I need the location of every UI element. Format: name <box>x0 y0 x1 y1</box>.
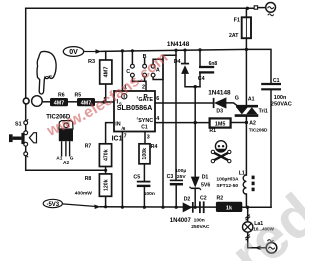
svg-text:S1: S1 <box>15 122 22 128</box>
svg-text:/6: /6 <box>122 126 126 131</box>
wire break marks below lamp <box>245 235 250 241</box>
svg-text:C: C <box>126 69 130 75</box>
svg-text:SYNC: SYNC <box>138 118 153 124</box>
wire IC pin1 from 0V rail <box>121 51 123 91</box>
wire touch plate to R6 <box>42 101 50 103</box>
AC source bottom <box>266 240 277 254</box>
svg-text:5V6: 5V6 <box>201 183 210 189</box>
resistor R4 100k <box>139 144 158 164</box>
wire L1 to lamp junction <box>245 194 247 207</box>
wire C4 top lead <box>199 50 201 66</box>
label 0V net oval <box>63 47 101 57</box>
wire fuse bottom to A1 node <box>245 38 247 49</box>
node dot 0V rail / D4 <box>183 49 186 52</box>
wire C4 bottom lead <box>199 73 201 87</box>
svg-text:D2: D2 <box>184 197 191 203</box>
node dot fuse top rail <box>246 7 249 10</box>
wire R3 top lead <box>105 51 107 60</box>
wire lamp top segment <box>247 207 249 222</box>
wire -5V3 bottom rail <box>100 206 271 209</box>
node dot A1 node <box>245 48 248 51</box>
svg-text:100µH/3A: 100µH/3A <box>216 177 239 183</box>
svg-text:B: B <box>143 54 147 60</box>
resistor R2 1k <box>216 196 242 212</box>
resistor R6 4M7 <box>50 92 68 106</box>
wire break marks above lamp <box>245 215 250 221</box>
svg-text:GATE: GATE <box>138 97 153 103</box>
svg-text:C5: C5 <box>133 175 140 181</box>
triac Tri1 TIC206D <box>235 97 268 133</box>
TIC206D package body <box>59 129 73 141</box>
wire stub rail to pad C <box>131 51 133 65</box>
capacitor C2 100n 250VAC <box>191 196 210 231</box>
wire R6-R5 <box>68 101 77 103</box>
svg-text:R2: R2 <box>217 196 224 202</box>
svg-text:C1: C1 <box>141 125 148 131</box>
svg-text:1N4148: 1N4148 <box>208 89 231 96</box>
wire 0V rail <box>101 49 246 51</box>
lamp La1 <box>243 221 275 232</box>
wire D4 top lead <box>184 50 186 63</box>
svg-text:A2: A2 <box>249 120 256 126</box>
capacitor C3 100u 25V electrolytic <box>167 168 187 184</box>
svg-text:C3: C3 <box>167 174 174 180</box>
svg-text:IN: IN <box>115 122 120 128</box>
arrow on AC wire <box>255 246 261 251</box>
capacitor C5 100n <box>133 175 154 197</box>
svg-text:R6: R6 <box>58 92 65 98</box>
svg-text:100n: 100n <box>144 191 155 197</box>
wire D4 bottom to node <box>185 74 200 87</box>
node dot 0V rail / mid verticals <box>174 49 177 52</box>
svg-text:0V: 0V <box>69 49 78 56</box>
wire S1 to R7/R8 junction <box>26 156 106 171</box>
wire C1 branch from A1 node <box>246 49 271 83</box>
svg-text:1N4007: 1N4007 <box>170 218 192 224</box>
svg-text:TIC206D: TIC206D <box>249 127 268 132</box>
svg-text:SFT12-50: SFT12-50 <box>216 183 238 189</box>
wire left mains drop to touch plate <box>25 8 27 98</box>
node dot lamp junction <box>246 206 249 209</box>
wire mains top rail <box>26 7 255 9</box>
svg-text:120k: 120k <box>103 179 109 191</box>
svg-text:C2: C2 <box>200 196 207 202</box>
capacitor C4 6n8 <box>198 61 218 82</box>
wire gate line pin6 to D3 <box>155 102 214 104</box>
wire C3 bottom lead <box>175 184 177 207</box>
svg-text:1M5: 1M5 <box>215 122 226 128</box>
svg-text:4: 4 <box>156 116 159 122</box>
svg-text:G: G <box>235 95 239 101</box>
wire R8 to -5V3 rail <box>105 196 107 206</box>
svg-text:Tri1: Tri1 <box>259 108 268 114</box>
wire branch 0V to mid verticals <box>163 50 176 207</box>
diode D4 1N4148 <box>174 59 189 74</box>
AC source top <box>254 3 275 16</box>
svg-text:2AT: 2AT <box>229 33 239 39</box>
svg-text:A2: A2 <box>63 160 69 166</box>
wire stub B <box>144 58 146 64</box>
wire S1 internal top <box>25 125 27 131</box>
TIC206D package tab <box>59 121 73 129</box>
node dot S1 / R7 R8 junction <box>104 169 107 172</box>
node dot D4/C4 supply node <box>194 85 197 88</box>
pin symbol circle inside top-left <box>122 94 127 99</box>
op-amp IC1 SLB0586A box <box>114 91 155 132</box>
node dot C3 bottom rail <box>175 206 178 209</box>
svg-text:400mW: 400mW <box>75 190 93 196</box>
svg-text:F1: F1 <box>234 17 240 23</box>
skull danger symbol <box>211 141 231 163</box>
resistor R1 1M5 <box>209 118 230 134</box>
TIC206D package legs <box>62 141 70 156</box>
node dot triac A2 <box>245 121 248 124</box>
svg-text:R8: R8 <box>85 176 92 182</box>
wire R7 R8 junction column <box>105 167 107 174</box>
capacitor C1 100n 250VAC <box>261 78 292 108</box>
svg-text:R7: R7 <box>85 143 92 149</box>
svg-text:-5V3: -5V3 <box>46 202 59 208</box>
wire S1 internal bottom <box>25 146 27 152</box>
wire IC pin3 to R4 <box>144 132 146 144</box>
wire pad B bottom stub <box>144 77 146 81</box>
svg-text:G: G <box>70 155 74 161</box>
wire R4 to C5 <box>143 164 145 181</box>
resistor R7 470k <box>85 143 112 166</box>
diode D2 1N4007 <box>170 197 193 224</box>
wire triac A2 down to L1 <box>245 117 247 176</box>
node dot 0V rail / pad C stub <box>131 49 134 52</box>
node dot D1 bottom rail <box>194 206 197 209</box>
wire R3 bottom lead <box>105 84 107 102</box>
svg-text:25V: 25V <box>177 174 186 180</box>
wire IC pin IN to R7 <box>106 123 114 144</box>
node dot C5 bottom rail <box>143 206 146 209</box>
label -5V3 net oval <box>43 199 100 209</box>
svg-text:1N4148: 1N4148 <box>167 41 190 48</box>
programming pads 2x3 with letters <box>131 64 156 77</box>
wire touch plate to S1 <box>25 104 27 121</box>
node dot R3 / sensor line <box>102 101 105 104</box>
svg-text:SLB0586A: SLB0586A <box>117 103 153 112</box>
svg-text:6: 6 <box>156 96 159 102</box>
node dot mid vertical bottom rail <box>161 206 164 209</box>
wire A1 node to triac <box>245 49 247 105</box>
svg-text:250VAC: 250VAC <box>191 224 210 230</box>
svg-text:D3: D3 <box>216 108 223 114</box>
svg-text:D1: D1 <box>202 175 209 181</box>
svg-text:7: 7 <box>124 134 127 140</box>
svg-text:R1: R1 <box>209 128 216 134</box>
svg-text:100k: 100k <box>142 148 148 160</box>
wire lamp bottom segment to AC source <box>248 232 266 248</box>
svg-text:A1: A1 <box>248 97 255 103</box>
resistor R8 120k <box>75 174 112 196</box>
inductor L1 100uH/3A <box>216 171 254 195</box>
svg-text:3: 3 <box>147 135 150 141</box>
zener diode D1 5V6 <box>190 175 211 190</box>
wire fuse top <box>245 8 247 17</box>
fuse F1 2AT <box>229 17 251 39</box>
resistor R3 4M7 <box>88 59 112 84</box>
wire pad A loop bracket <box>153 59 163 79</box>
wire AC source top connector <box>258 7 266 9</box>
node dot 0V rail / C4 <box>198 48 201 51</box>
wire R1 to triac A2 <box>231 122 247 124</box>
wire supply node down to D1 <box>194 87 196 177</box>
wire R5 to IC pin5 <box>95 101 114 103</box>
svg-text:4M7: 4M7 <box>104 67 110 78</box>
wire IC pin7 to bottom rail <box>121 132 123 208</box>
TIC206D package tab hole <box>64 123 69 128</box>
wire D3 anode to triac gate <box>226 103 237 106</box>
wire C3 top lead <box>175 55 177 180</box>
wire C5 to bottom rail <box>143 186 145 207</box>
hand knuckle lines <box>45 76 52 78</box>
svg-text:C4: C4 <box>198 76 205 82</box>
svg-text:A1: A1 <box>56 155 62 161</box>
svg-text:100n: 100n <box>194 218 205 224</box>
extension arrow at S1 <box>29 133 36 143</box>
svg-text:100n: 100n <box>274 95 287 101</box>
node dot sync line supply <box>194 121 197 124</box>
svg-text:D4: D4 <box>174 59 181 65</box>
hand touching sensor <box>37 51 56 94</box>
wire sync line pin4 to R1 <box>155 122 210 124</box>
svg-text:100µ: 100µ <box>175 168 186 174</box>
svg-text:4M7: 4M7 <box>54 101 65 107</box>
wire C1 bottom to lamp rail <box>270 90 272 208</box>
resistor R5 4M7 <box>75 92 96 106</box>
svg-text:R5: R5 <box>75 92 82 98</box>
node dot pin7 bottom rail <box>121 206 124 209</box>
wire D1 to bottom rail <box>194 188 196 207</box>
touch plate small circle <box>23 98 29 104</box>
svg-text:250VAC: 250VAC <box>271 102 292 108</box>
svg-text:R3: R3 <box>88 59 95 65</box>
node dot R8 bottom rail <box>104 205 107 208</box>
diode D3 1N4148 <box>208 89 231 114</box>
node dot 0V rail / pin1 <box>121 49 124 52</box>
svg-text:470k: 470k <box>103 149 109 161</box>
svg-text:R4: R4 <box>151 144 158 150</box>
touch plate big circle <box>32 96 43 107</box>
svg-text:IC1: IC1 <box>112 135 123 142</box>
wire pads bottom row to IC pin2 <box>132 77 146 91</box>
switch S1 <box>9 119 28 157</box>
svg-text:1k: 1k <box>226 205 233 211</box>
